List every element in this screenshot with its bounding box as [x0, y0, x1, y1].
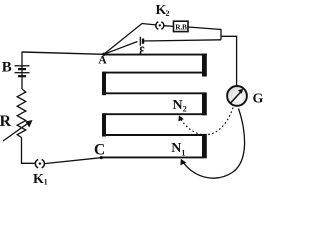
- svg-text:1: 1: [44, 177, 48, 186]
- key K2 (plug key): [156, 22, 164, 29]
- serpentine line 3: [103, 92, 203, 94]
- node C dot: [100, 156, 103, 159]
- wire battery vertical: [21, 52, 23, 67]
- svg-text:C: C: [94, 142, 105, 159]
- wire cell to junction: [143, 40, 221, 41]
- node A dot: [102, 53, 105, 56]
- wire junction to G: [221, 36, 237, 85]
- svg-text:N: N: [171, 141, 181, 156]
- serpentine line 6 (C row): [101, 156, 203, 158]
- serpentine right connector 1-2: [202, 54, 207, 77]
- svg-text:K: K: [33, 172, 44, 187]
- wire rheostat to K1: [22, 138, 36, 164]
- svg-text:ε: ε: [139, 40, 144, 60]
- dashed curve G to N2: [181, 108, 233, 135]
- svg-text:R.B.: R.B.: [175, 22, 189, 31]
- wire A to K2 lever: [104, 24, 156, 55]
- battery B: [15, 66, 30, 76]
- svg-text:1: 1: [181, 149, 185, 158]
- svg-text:A: A: [98, 55, 107, 67]
- arrowhead N2: [178, 115, 183, 121]
- key K1 (plug key): [35, 159, 44, 168]
- svg-text:B: B: [2, 60, 12, 76]
- serpentine line 4: [103, 113, 203, 115]
- serpentine left connector 4-5: [102, 113, 106, 136]
- cell epsilon plates: [139, 37, 141, 46]
- svg-text:R: R: [0, 113, 12, 130]
- wire K1 to C: [45, 158, 102, 164]
- serpentine right connector 3-4: [202, 92, 207, 115]
- wire A to cell: [104, 42, 138, 55]
- arrowhead N1: [180, 159, 186, 166]
- solid curve G to N1: [183, 109, 244, 179]
- resistor R (zigzag): [17, 89, 26, 138]
- svg-text:N: N: [173, 98, 183, 113]
- rheostat arrow: [3, 122, 30, 141]
- wire RB to junction: [188, 27, 221, 40]
- serpentine line 2: [103, 72, 203, 74]
- G needle: [230, 92, 240, 103]
- serpentine line 5: [103, 134, 203, 136]
- svg-text:2: 2: [183, 104, 187, 113]
- serpentine right connector 5-6: [202, 134, 207, 158]
- svg-text:2: 2: [166, 9, 170, 18]
- potentiometer serpentine wire: line 1 (A row): [104, 54, 207, 56]
- svg-text:G: G: [253, 91, 264, 106]
- resistance box RB: [174, 21, 189, 31]
- wire top from battery to A: [22, 52, 104, 54]
- wire K2 to RB: [164, 25, 174, 28]
- serpentine left connector 2-3: [102, 72, 106, 96]
